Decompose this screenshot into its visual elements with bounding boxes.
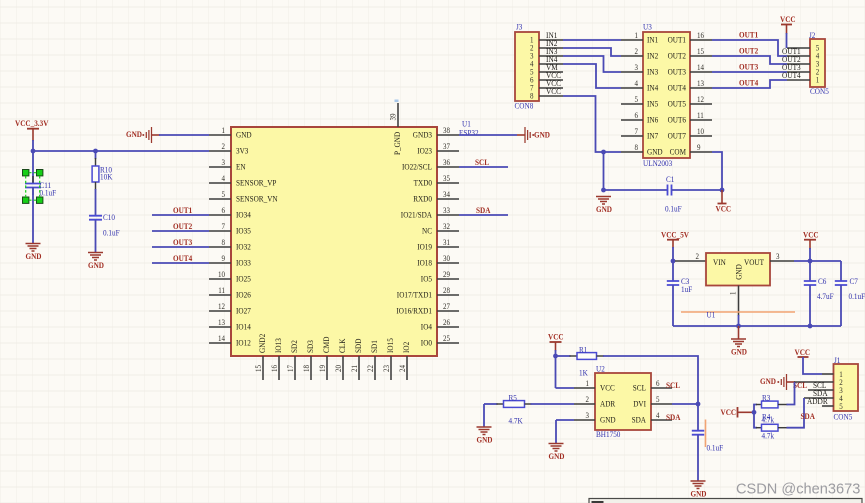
svg-text:IO34: IO34 <box>236 210 251 220</box>
svg-text:21: 21 <box>350 365 359 372</box>
svg-text:OUT1: OUT1 <box>739 30 758 39</box>
svg-text:2: 2 <box>696 252 700 261</box>
svg-text:1K: 1K <box>579 369 588 378</box>
svg-text:33: 33 <box>443 206 450 215</box>
svg-text:J3: J3 <box>516 23 522 32</box>
svg-text:38: 38 <box>443 126 450 135</box>
svg-text:19: 19 <box>318 365 327 372</box>
svg-text:VCC: VCC <box>795 348 811 357</box>
svg-text:SDA: SDA <box>801 412 815 421</box>
svg-text:5: 5 <box>839 402 843 411</box>
svg-text:1uF: 1uF <box>681 285 692 294</box>
svg-text:CON5: CON5 <box>834 413 853 422</box>
svg-text:IO23: IO23 <box>417 146 432 156</box>
svg-text:GND2: GND2 <box>257 334 267 353</box>
svg-text:SCL: SCL <box>633 383 646 393</box>
svg-text:5: 5 <box>635 95 639 104</box>
svg-text:CON5: CON5 <box>810 87 829 96</box>
svg-text:18: 18 <box>302 365 311 372</box>
svg-text:35: 35 <box>443 174 450 183</box>
svg-text:GND: GND <box>596 205 612 214</box>
svg-text:IO19: IO19 <box>417 242 432 252</box>
svg-text:P_GND: P_GND <box>392 132 402 155</box>
svg-text:10K: 10K <box>100 172 112 181</box>
svg-text:GND: GND <box>760 377 776 386</box>
svg-text:C7: C7 <box>850 277 858 286</box>
svg-text:J2: J2 <box>809 31 815 40</box>
svg-text:SDA: SDA <box>476 206 490 215</box>
svg-text:SD3: SD3 <box>305 340 315 353</box>
svg-text:SENSOR_VN: SENSOR_VN <box>236 194 278 204</box>
svg-text:OUT6: OUT6 <box>668 115 687 125</box>
svg-text:10: 10 <box>697 127 704 136</box>
svg-text:7: 7 <box>222 222 226 231</box>
svg-text:C10: C10 <box>103 213 115 222</box>
svg-text:J1: J1 <box>834 356 840 365</box>
svg-text:0.1uF: 0.1uF <box>707 443 724 452</box>
svg-text:IN6: IN6 <box>647 115 659 125</box>
svg-text:30: 30 <box>443 254 450 263</box>
svg-text:VCC: VCC <box>721 408 737 417</box>
svg-text:SCL: SCL <box>666 381 680 390</box>
svg-text:IO4: IO4 <box>421 322 433 332</box>
svg-text:IO32: IO32 <box>236 242 251 252</box>
svg-text:IO25: IO25 <box>236 274 251 284</box>
svg-text:GND: GND <box>731 348 747 357</box>
svg-text:OUT4: OUT4 <box>173 254 193 263</box>
svg-text:VIN: VIN <box>713 257 726 267</box>
svg-text:U3: U3 <box>643 23 652 32</box>
svg-text:4: 4 <box>222 174 226 183</box>
svg-text:4: 4 <box>635 79 639 88</box>
svg-text:IO14: IO14 <box>236 322 251 332</box>
svg-text:GND: GND <box>126 130 142 139</box>
svg-text:OUT7: OUT7 <box>668 131 687 141</box>
svg-text:U2: U2 <box>596 365 605 374</box>
svg-text:VCC_5V: VCC_5V <box>661 231 689 240</box>
svg-text:10: 10 <box>218 270 225 279</box>
svg-text:GND: GND <box>534 131 550 140</box>
svg-text:1: 1 <box>635 31 639 40</box>
svg-text:5: 5 <box>222 190 226 199</box>
svg-text:OUT2: OUT2 <box>668 51 686 61</box>
svg-text:SD2: SD2 <box>289 340 299 353</box>
svg-text:26: 26 <box>443 318 450 327</box>
svg-text:VCC: VCC <box>803 231 819 240</box>
svg-text:VCC: VCC <box>716 205 732 214</box>
svg-text:GND: GND <box>477 436 493 445</box>
svg-text:SENSOR_VP: SENSOR_VP <box>236 178 277 188</box>
svg-text:SDA: SDA <box>632 415 647 425</box>
svg-text:VCC: VCC <box>600 383 615 393</box>
svg-text:C6: C6 <box>818 277 826 286</box>
svg-text:OUT2: OUT2 <box>739 46 758 55</box>
svg-text:CSDN @chen3673: CSDN @chen3673 <box>736 482 860 498</box>
svg-text:28: 28 <box>443 286 450 295</box>
svg-text:14: 14 <box>697 63 704 72</box>
svg-text:4: 4 <box>656 411 660 420</box>
svg-text:CMD: CMD <box>321 337 331 353</box>
svg-text:36: 36 <box>443 158 450 167</box>
svg-text:15: 15 <box>697 47 704 56</box>
svg-text:12: 12 <box>697 95 704 104</box>
svg-text:GND: GND <box>549 452 565 461</box>
svg-text:OUT4: OUT4 <box>782 70 801 80</box>
svg-text:25: 25 <box>443 334 450 343</box>
svg-text:24: 24 <box>398 365 407 372</box>
svg-text:SCL: SCL <box>475 158 489 167</box>
svg-text:VCC: VCC <box>546 86 561 96</box>
svg-text:23: 23 <box>382 365 391 372</box>
svg-text:IO15: IO15 <box>385 338 395 353</box>
svg-text:SDA: SDA <box>666 413 680 422</box>
svg-text:32: 32 <box>443 222 450 231</box>
svg-text:IO27: IO27 <box>236 306 251 316</box>
svg-text:NC: NC <box>422 226 432 236</box>
svg-text:3: 3 <box>635 63 639 72</box>
svg-text:RXD0: RXD0 <box>413 194 432 204</box>
svg-text:GND: GND <box>600 415 616 425</box>
svg-text:6: 6 <box>656 379 660 388</box>
svg-text:16: 16 <box>270 365 279 372</box>
svg-text:IN3: IN3 <box>647 67 658 77</box>
svg-text:VCC: VCC <box>780 15 796 24</box>
svg-text:5: 5 <box>656 395 660 404</box>
svg-text:IO26: IO26 <box>236 290 251 300</box>
svg-text:0.1uF: 0.1uF <box>40 189 57 198</box>
svg-text:VCC: VCC <box>548 333 564 342</box>
svg-text:29: 29 <box>443 270 450 279</box>
svg-text:IN5: IN5 <box>647 99 658 109</box>
svg-text:TXD0: TXD0 <box>414 178 432 188</box>
svg-text:3: 3 <box>586 411 590 420</box>
svg-text:4.7K: 4.7K <box>509 416 523 425</box>
svg-text:IO18: IO18 <box>417 258 432 268</box>
svg-text:U1: U1 <box>462 120 471 129</box>
svg-text:1: 1 <box>816 76 820 85</box>
svg-text:16: 16 <box>697 31 704 40</box>
svg-text:13: 13 <box>218 318 225 327</box>
svg-text:ADR: ADR <box>600 399 615 409</box>
svg-text:C1: C1 <box>666 175 674 184</box>
svg-text:0.1uF: 0.1uF <box>103 229 120 238</box>
svg-text:34: 34 <box>443 190 450 199</box>
svg-text:OUT3: OUT3 <box>668 67 686 77</box>
svg-text:IO21/SDA: IO21/SDA <box>401 210 433 220</box>
svg-text:GND3: GND3 <box>413 130 432 140</box>
svg-text:SD1: SD1 <box>369 340 379 353</box>
svg-text:DVI: DVI <box>633 399 646 409</box>
svg-text:2: 2 <box>222 142 226 151</box>
svg-text:R1: R1 <box>579 345 587 354</box>
svg-text:IO35: IO35 <box>236 226 251 236</box>
svg-text:3V3: 3V3 <box>236 146 248 156</box>
svg-text:31: 31 <box>443 238 450 247</box>
svg-text:EN: EN <box>236 162 246 172</box>
svg-text:14: 14 <box>218 334 225 343</box>
svg-text:39: 39 <box>389 114 398 121</box>
svg-text:IN1: IN1 <box>647 35 658 45</box>
svg-text:OUT1: OUT1 <box>668 35 686 45</box>
svg-text:ULN2003: ULN2003 <box>643 159 672 168</box>
svg-text:8: 8 <box>530 92 534 101</box>
svg-text:3: 3 <box>222 158 226 167</box>
svg-text:6: 6 <box>222 206 226 215</box>
svg-text:OUT5: OUT5 <box>668 99 686 109</box>
svg-text:20: 20 <box>334 365 343 372</box>
svg-text:27: 27 <box>443 302 450 311</box>
svg-text:IN7: IN7 <box>647 131 659 141</box>
svg-text:0.1uF: 0.1uF <box>665 205 682 214</box>
svg-text:0.1uF: 0.1uF <box>849 292 865 301</box>
svg-text:17: 17 <box>286 365 295 372</box>
svg-text:R3: R3 <box>762 393 770 402</box>
svg-text:13: 13 <box>697 79 704 88</box>
svg-text:2: 2 <box>635 47 639 56</box>
svg-text:9: 9 <box>222 254 226 263</box>
svg-text:15: 15 <box>254 365 263 372</box>
svg-text:22: 22 <box>366 365 375 372</box>
svg-text:R5: R5 <box>509 393 517 402</box>
svg-text:11: 11 <box>218 286 225 295</box>
svg-text:4.7k: 4.7k <box>762 415 775 424</box>
svg-text:8: 8 <box>222 238 226 247</box>
svg-text:SDD: SDD <box>353 339 363 353</box>
svg-text:GND: GND <box>236 130 252 140</box>
svg-text:U1: U1 <box>707 311 716 320</box>
svg-text:4.7uF: 4.7uF <box>817 292 834 301</box>
svg-text:IO2: IO2 <box>401 342 411 353</box>
svg-text:IO0: IO0 <box>421 338 432 348</box>
svg-text:IO13: IO13 <box>273 338 283 353</box>
svg-text:7: 7 <box>635 127 639 136</box>
svg-text:COM: COM <box>670 147 687 157</box>
svg-text:OUT3: OUT3 <box>739 62 758 71</box>
svg-text:VCC_3.3V: VCC_3.3V <box>15 119 48 128</box>
svg-text:IO12: IO12 <box>236 338 251 348</box>
svg-text:3: 3 <box>776 252 780 261</box>
svg-text:37: 37 <box>443 142 450 151</box>
svg-text:GND: GND <box>691 490 707 499</box>
svg-text:IO33: IO33 <box>236 258 251 268</box>
svg-text:4.7k: 4.7k <box>762 431 775 440</box>
svg-text:OUT2: OUT2 <box>173 222 192 231</box>
svg-text:GND: GND <box>26 252 42 261</box>
svg-text:ADDR: ADDR <box>807 396 828 406</box>
svg-text:OUT4: OUT4 <box>739 78 759 87</box>
svg-text:GND: GND <box>734 264 744 280</box>
svg-text:1: 1 <box>222 126 226 135</box>
svg-text:9: 9 <box>697 143 701 152</box>
svg-text:1: 1 <box>586 379 590 388</box>
svg-text:IO16/RXD1: IO16/RXD1 <box>396 306 432 316</box>
svg-text:GND: GND <box>647 147 663 157</box>
svg-text:GND: GND <box>88 261 104 270</box>
svg-text:BH1750: BH1750 <box>596 430 620 439</box>
svg-text:VOUT: VOUT <box>744 257 765 267</box>
svg-text:IN4: IN4 <box>647 83 659 93</box>
svg-text:12: 12 <box>218 302 225 311</box>
svg-text:IO22/SCL: IO22/SCL <box>402 162 432 172</box>
svg-text:IO17/TXD1: IO17/TXD1 <box>397 290 432 300</box>
svg-text:OUT3: OUT3 <box>173 238 192 247</box>
svg-text:2: 2 <box>586 395 590 404</box>
svg-text:1: 1 <box>729 292 738 296</box>
svg-text:OUT1: OUT1 <box>173 206 192 215</box>
svg-text:IO5: IO5 <box>421 274 432 284</box>
svg-text:CLK: CLK <box>337 338 347 353</box>
svg-text:8: 8 <box>635 143 639 152</box>
svg-text:OUT4: OUT4 <box>668 83 687 93</box>
svg-text:11: 11 <box>697 111 704 120</box>
svg-text:6: 6 <box>635 111 639 120</box>
svg-text:ESP32: ESP32 <box>459 129 479 138</box>
svg-text:CON8: CON8 <box>515 102 534 111</box>
svg-text:IN2: IN2 <box>647 51 658 61</box>
